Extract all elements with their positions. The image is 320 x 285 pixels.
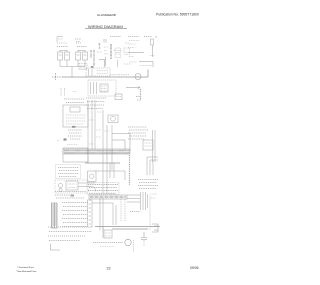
right dotted return wire (149, 196, 151, 230)
vertical wire label (140, 89, 142, 100)
compressor relay cluster (127, 192, 148, 210)
lamp pair one top bridge wire (60, 50, 67, 52)
water valve box (88, 171, 97, 182)
ice maker switch box (66, 181, 78, 190)
freezer lamp L2 (65, 50, 70, 63)
ground symbol wire (51, 244, 61, 250)
ice maker heater circle (59, 188, 62, 191)
evaporator fan motor M2 (108, 115, 118, 123)
center label rows dense (87, 183, 119, 195)
timer housing dashed box (86, 68, 110, 76)
ice maker output wires (78, 183, 96, 192)
control cluster labels (86, 97, 141, 109)
right label rows (138, 180, 158, 189)
defrost limit labels (68, 130, 82, 139)
wire run lower (139, 62, 153, 68)
ice maker dashed box (55, 180, 88, 193)
title underline (85, 27, 127, 29)
harness trunk wires (88, 100, 112, 193)
wire stub marks (57, 141, 78, 145)
svg-text:# Functional Parts: # Functional Parts (17, 266, 34, 269)
connector P1 corner bracket (57, 37, 63, 43)
compressor label row (93, 242, 123, 244)
right riser wires (147, 157, 158, 175)
lower switch label (140, 65, 152, 67)
defrost thermostat (115, 94, 122, 100)
vertical harness label column (110, 44, 112, 59)
compressor feed wire (95, 227, 160, 230)
fresh food lamp L3 (76, 50, 81, 63)
svg-text:09/06: 09/06 (190, 266, 199, 270)
cold control box (63, 105, 88, 127)
defrost timer motor box (100, 84, 108, 92)
left sensor marks (61, 88, 77, 96)
right pair vertical wires (153, 130, 156, 162)
svg-text:WIRING DIAGRAM: WIRING DIAGRAM (88, 24, 123, 29)
light switch block (79, 64, 87, 70)
run wire with arrow (126, 86, 140, 88)
mullion heater cluster (114, 48, 122, 67)
trunk wire color labels (89, 112, 110, 144)
vertical harness label (129, 155, 131, 185)
wire run to switch (128, 45, 153, 57)
board output wires (95, 163, 125, 180)
ground dashed wire (133, 240, 135, 252)
branch wires right of trunk (112, 134, 130, 151)
condenser fan motor M1 (135, 74, 141, 80)
connector P2 label (75, 39, 81, 42)
defrost timer dashed box (88, 80, 116, 96)
svg-text:Publication No. 5995T71800: Publication No. 5995T71800 (156, 13, 199, 17)
freezer lamp L1 (58, 50, 63, 63)
dash row above bus (110, 74, 129, 76)
dashed branch wires (121, 199, 125, 221)
fresh food lamp L4 (83, 50, 88, 63)
dispenser box (143, 140, 153, 150)
wire legend rows (62, 203, 88, 227)
right label block rows (128, 127, 148, 139)
defrost heater ladder (52, 203, 58, 228)
main supply bus wire (52, 70, 148, 81)
compressor sub label (100, 246, 114, 248)
right label block (128, 39, 154, 48)
svg-text:23: 23 (107, 267, 111, 271)
switch label small (129, 56, 155, 63)
terminal block labels (55, 192, 86, 199)
temperature control label block (56, 165, 81, 179)
thermostat label rows (64, 99, 85, 103)
lower trunk wires (92, 198, 116, 230)
thermostat column box (88, 200, 93, 227)
door switch wire labels (91, 43, 102, 66)
freezer lamp label (57, 43, 68, 47)
main connector band (89, 195, 127, 199)
aux switch cluster (124, 43, 131, 64)
switch label bits left (104, 39, 108, 66)
lamp pair two top bridge wire (78, 50, 85, 52)
top wire label row (110, 36, 157, 39)
lower legend rows (48, 227, 92, 241)
relay corner marks (150, 194, 157, 198)
ice maker motor circle (58, 183, 62, 187)
junction blob (91, 66, 94, 68)
run capacitor C1 (141, 232, 147, 246)
power cord plug (152, 224, 158, 232)
control housing box (63, 148, 120, 163)
start relay steps (103, 226, 112, 238)
switch feed wire (99, 60, 105, 68)
junction blob lower (64, 138, 67, 140)
overload label (130, 211, 140, 213)
compressor motor circle (125, 239, 131, 245)
connector strip dense band (63, 149, 130, 154)
lamp return wire (60, 63, 85, 77)
svg-text:GLHS66EESB: GLHS66EESB (97, 13, 116, 17)
fresh food lamp label (76, 43, 87, 47)
svg-text:* Non-Illustrated Parts: * Non-Illustrated Parts (16, 270, 36, 273)
